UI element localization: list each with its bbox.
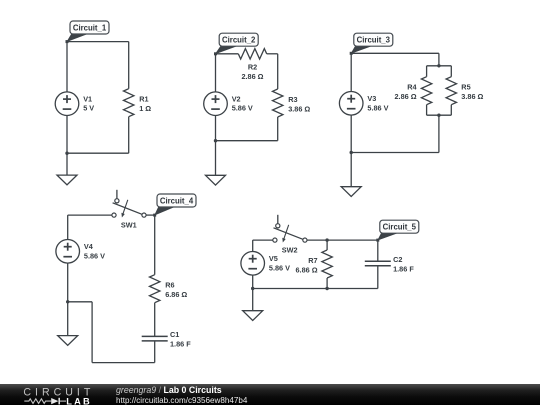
node: Circuit_4 return junction bbox=[66, 300, 69, 303]
svg-text:Circuit_3: Circuit_3 bbox=[357, 36, 391, 45]
wire: V1 top lead bbox=[66, 42, 68, 92]
wire: return to V4 node bbox=[68, 301, 92, 303]
wire: R5 bottom lead bbox=[450, 105, 452, 116]
resistor R1 (1 ohm) bbox=[124, 89, 152, 117]
wire: V5 top lead bbox=[252, 240, 254, 251]
node: Circuit_2 ground junction bbox=[214, 139, 217, 142]
wire: SW2 common to C2 node bbox=[307, 239, 378, 241]
ground (Circuit_1) bbox=[57, 175, 77, 185]
svg-text:R6: R6 bbox=[165, 281, 174, 290]
svg-text:Circuit_2: Circuit_2 bbox=[222, 36, 256, 45]
svg-text:R5: R5 bbox=[461, 83, 470, 92]
wire: parallel bottom bar bbox=[427, 114, 452, 116]
ground (Circuit_4) bbox=[58, 336, 78, 346]
svg-text:R3: R3 bbox=[288, 95, 297, 104]
wire: top bus drop bbox=[438, 53, 440, 66]
svg-text:5.86 V: 5.86 V bbox=[367, 103, 388, 112]
svg-text:R4: R4 bbox=[407, 83, 417, 92]
wire: C2 bottom lead bbox=[377, 266, 379, 289]
node: R7 bottom junction bbox=[325, 287, 328, 290]
node: R7 top junction bbox=[325, 238, 328, 241]
wire: parallel top bar bbox=[427, 65, 452, 67]
switch SW1 (SPDT toggle, open) bbox=[112, 190, 146, 230]
node: R4/R5 top junction bbox=[437, 64, 440, 67]
capacitor C2 (1.86 F) bbox=[365, 255, 415, 274]
wire: R6 to C1 bbox=[154, 303, 156, 337]
wire: R7 bottom lead bbox=[326, 278, 328, 289]
callout label Circuit_1 bbox=[66, 21, 110, 43]
wire: Circuit_3 top net bbox=[351, 52, 439, 54]
wire: R1 bottom lead bbox=[128, 117, 130, 154]
node: Circuit_1 ground junction bbox=[65, 152, 68, 155]
wire: V4 to SW1 left throw bbox=[68, 214, 112, 216]
ground (Circuit_3) bbox=[341, 187, 361, 197]
wire: SW1 common to R6 node bbox=[146, 214, 155, 216]
wire: R4 bottom lead bbox=[426, 105, 428, 116]
svg-text:V4: V4 bbox=[84, 242, 94, 251]
resistor R3 (3.86 ohm) bbox=[273, 89, 311, 117]
svg-text:6.86 Ω: 6.86 Ω bbox=[296, 265, 318, 274]
svg-text:5 V: 5 V bbox=[83, 104, 94, 113]
resistor R7 (6.86 ohm) bbox=[296, 250, 333, 278]
resistor R6 (6.86 ohm) bbox=[150, 275, 188, 303]
svg-text:5.86 V: 5.86 V bbox=[84, 251, 105, 260]
svg-text:R7: R7 bbox=[308, 256, 317, 265]
svg-text:R2: R2 bbox=[248, 63, 257, 72]
svg-text:V2: V2 bbox=[232, 95, 241, 104]
svg-text:LAB: LAB bbox=[66, 396, 92, 405]
credit text bbox=[116, 385, 247, 406]
svg-text:V1: V1 bbox=[83, 95, 92, 104]
voltage source V4 (5.86 V) bbox=[56, 240, 105, 264]
svg-text:C2: C2 bbox=[393, 255, 402, 264]
wire: bottom net riser bbox=[91, 302, 93, 363]
wire: Circuit_1 top net bbox=[67, 41, 129, 43]
node: Circuit_5 ground junction bbox=[251, 287, 254, 290]
svg-text:1.86 F: 1.86 F bbox=[393, 264, 414, 273]
ground (Circuit_2) bbox=[206, 175, 226, 185]
svg-text:2.86 Ω: 2.86 Ω bbox=[241, 72, 263, 81]
wire: bottom bus drop bbox=[438, 115, 440, 152]
svg-text:SW1: SW1 bbox=[121, 221, 137, 230]
wire: V4 bottom lead to ground bbox=[67, 263, 69, 336]
svg-text:2.86 Ω: 2.86 Ω bbox=[395, 92, 417, 101]
wire: R3 bottom lead bbox=[277, 117, 279, 141]
voltage source V5 (5.86 V) bbox=[241, 251, 290, 275]
svg-text:SW2: SW2 bbox=[282, 246, 298, 255]
svg-text:Circuit_4: Circuit_4 bbox=[160, 197, 194, 206]
switch SW2 (SPDT toggle, open) bbox=[273, 215, 307, 255]
wire: R3 top lead bbox=[277, 54, 279, 89]
footer bar bbox=[0, 384, 540, 405]
svg-text:Circuit_1: Circuit_1 bbox=[73, 24, 107, 33]
logo resistor glyph bbox=[24, 399, 51, 404]
svg-text:Circuit_5: Circuit_5 bbox=[383, 223, 417, 232]
svg-text:5.86 V: 5.86 V bbox=[269, 263, 290, 272]
wire: R5 top lead bbox=[450, 66, 452, 77]
wire: R6 top lead bbox=[154, 215, 156, 275]
callout label Circuit_5 bbox=[376, 220, 419, 241]
wire: R1 top lead bbox=[128, 42, 130, 89]
svg-text:V3: V3 bbox=[367, 94, 376, 103]
callout label Circuit_2 bbox=[214, 33, 258, 55]
svg-text:3.86 Ω: 3.86 Ω bbox=[288, 104, 310, 113]
wire: V2 to R2 left lead bbox=[216, 53, 239, 55]
resistor R4 (2.86 ohm) bbox=[395, 77, 432, 105]
wire: Circuit_3 bottom net bbox=[351, 152, 439, 154]
node: Circuit_3 ground junction bbox=[350, 151, 353, 154]
ground (Circuit_5) bbox=[243, 311, 263, 321]
svg-text:5.86 V: 5.86 V bbox=[232, 104, 253, 113]
wire: V5 bottom lead to ground bbox=[252, 275, 254, 311]
wire: Circuit_1 bottom net bbox=[67, 152, 129, 154]
logo diode glyph bbox=[51, 398, 58, 404]
CircuitLab logo bbox=[23, 384, 103, 410]
wire: V2 bottom lead to ground bbox=[215, 116, 217, 176]
wire: V2 top lead bbox=[215, 54, 217, 92]
svg-text:V5: V5 bbox=[269, 254, 278, 263]
svg-text:3.86 Ω: 3.86 Ω bbox=[461, 92, 483, 101]
resistor R5 (3.86 ohm) bbox=[446, 77, 483, 105]
svg-text:R1: R1 bbox=[139, 95, 148, 104]
svg-text:1 Ω: 1 Ω bbox=[139, 104, 151, 113]
wire: C1 bottom lead bbox=[154, 341, 156, 363]
wire: V3 bottom lead to ground bbox=[350, 115, 352, 187]
wire: R7 top lead bbox=[326, 240, 328, 250]
wire: R4 top lead bbox=[426, 66, 428, 77]
wire: Circuit_4 bottom net bbox=[92, 362, 155, 364]
voltage source V2 (5.86 V) bbox=[204, 92, 253, 116]
capacitor C1 (1.86 F) bbox=[142, 330, 192, 349]
wire: V1 bottom lead to ground bbox=[66, 116, 68, 176]
wire: V5 to SW2 left throw bbox=[253, 239, 273, 241]
wire: V3 top lead bbox=[350, 53, 352, 91]
wire: V4 top lead bbox=[67, 215, 69, 239]
svg-text:6.86 Ω: 6.86 Ω bbox=[165, 290, 187, 299]
voltage source V3 (5.86 V) bbox=[339, 92, 388, 116]
callout label Circuit_3 bbox=[350, 33, 393, 55]
voltage source V1 (5 V) bbox=[55, 92, 94, 116]
wire: Circuit_2 bottom net bbox=[216, 140, 278, 142]
svg-text:1.86 F: 1.86 F bbox=[170, 340, 191, 349]
wire: R2 right lead bbox=[267, 53, 278, 55]
svg-text:C1: C1 bbox=[170, 330, 179, 339]
wire: Circuit_5 bottom net bbox=[253, 288, 378, 290]
resistor R2 (2.86 ohm) bbox=[238, 49, 266, 82]
wire: C2 top lead bbox=[377, 240, 379, 261]
node: R4/R5 bottom junction bbox=[437, 114, 440, 117]
callout label Circuit_4 bbox=[153, 194, 196, 217]
